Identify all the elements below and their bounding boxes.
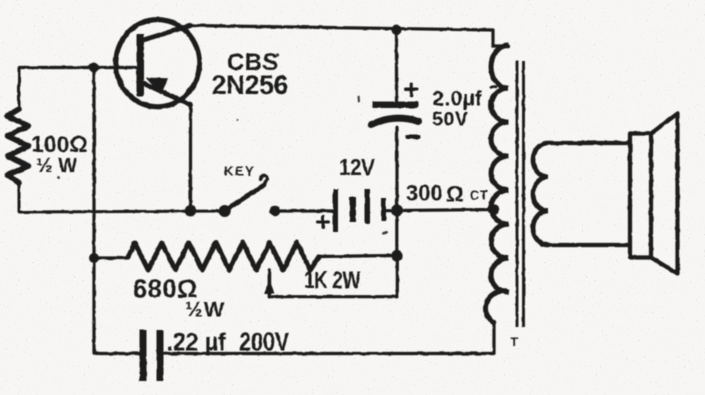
svg-text:2N256: 2N256 <box>212 70 289 100</box>
svg-text:1K 2W: 1K 2W <box>304 266 361 294</box>
svg-text:50V: 50V <box>432 109 469 131</box>
svg-text:KEY: KEY <box>224 164 255 179</box>
svg-text:.22 µf: .22 µf <box>167 329 227 357</box>
svg-text:T: T <box>511 335 519 349</box>
svg-text:½W: ½W <box>185 298 225 322</box>
svg-text:½ W: ½ W <box>36 155 77 177</box>
svg-text:12V: 12V <box>339 154 375 180</box>
svg-text:200V: 200V <box>239 328 289 357</box>
svg-text:2.0µf: 2.0µf <box>433 88 483 111</box>
svg-text:100Ω: 100Ω <box>31 131 88 157</box>
svg-text:Ω: Ω <box>446 182 464 207</box>
svg-text:CT: CT <box>470 189 489 203</box>
svg-text:300: 300 <box>406 181 443 206</box>
